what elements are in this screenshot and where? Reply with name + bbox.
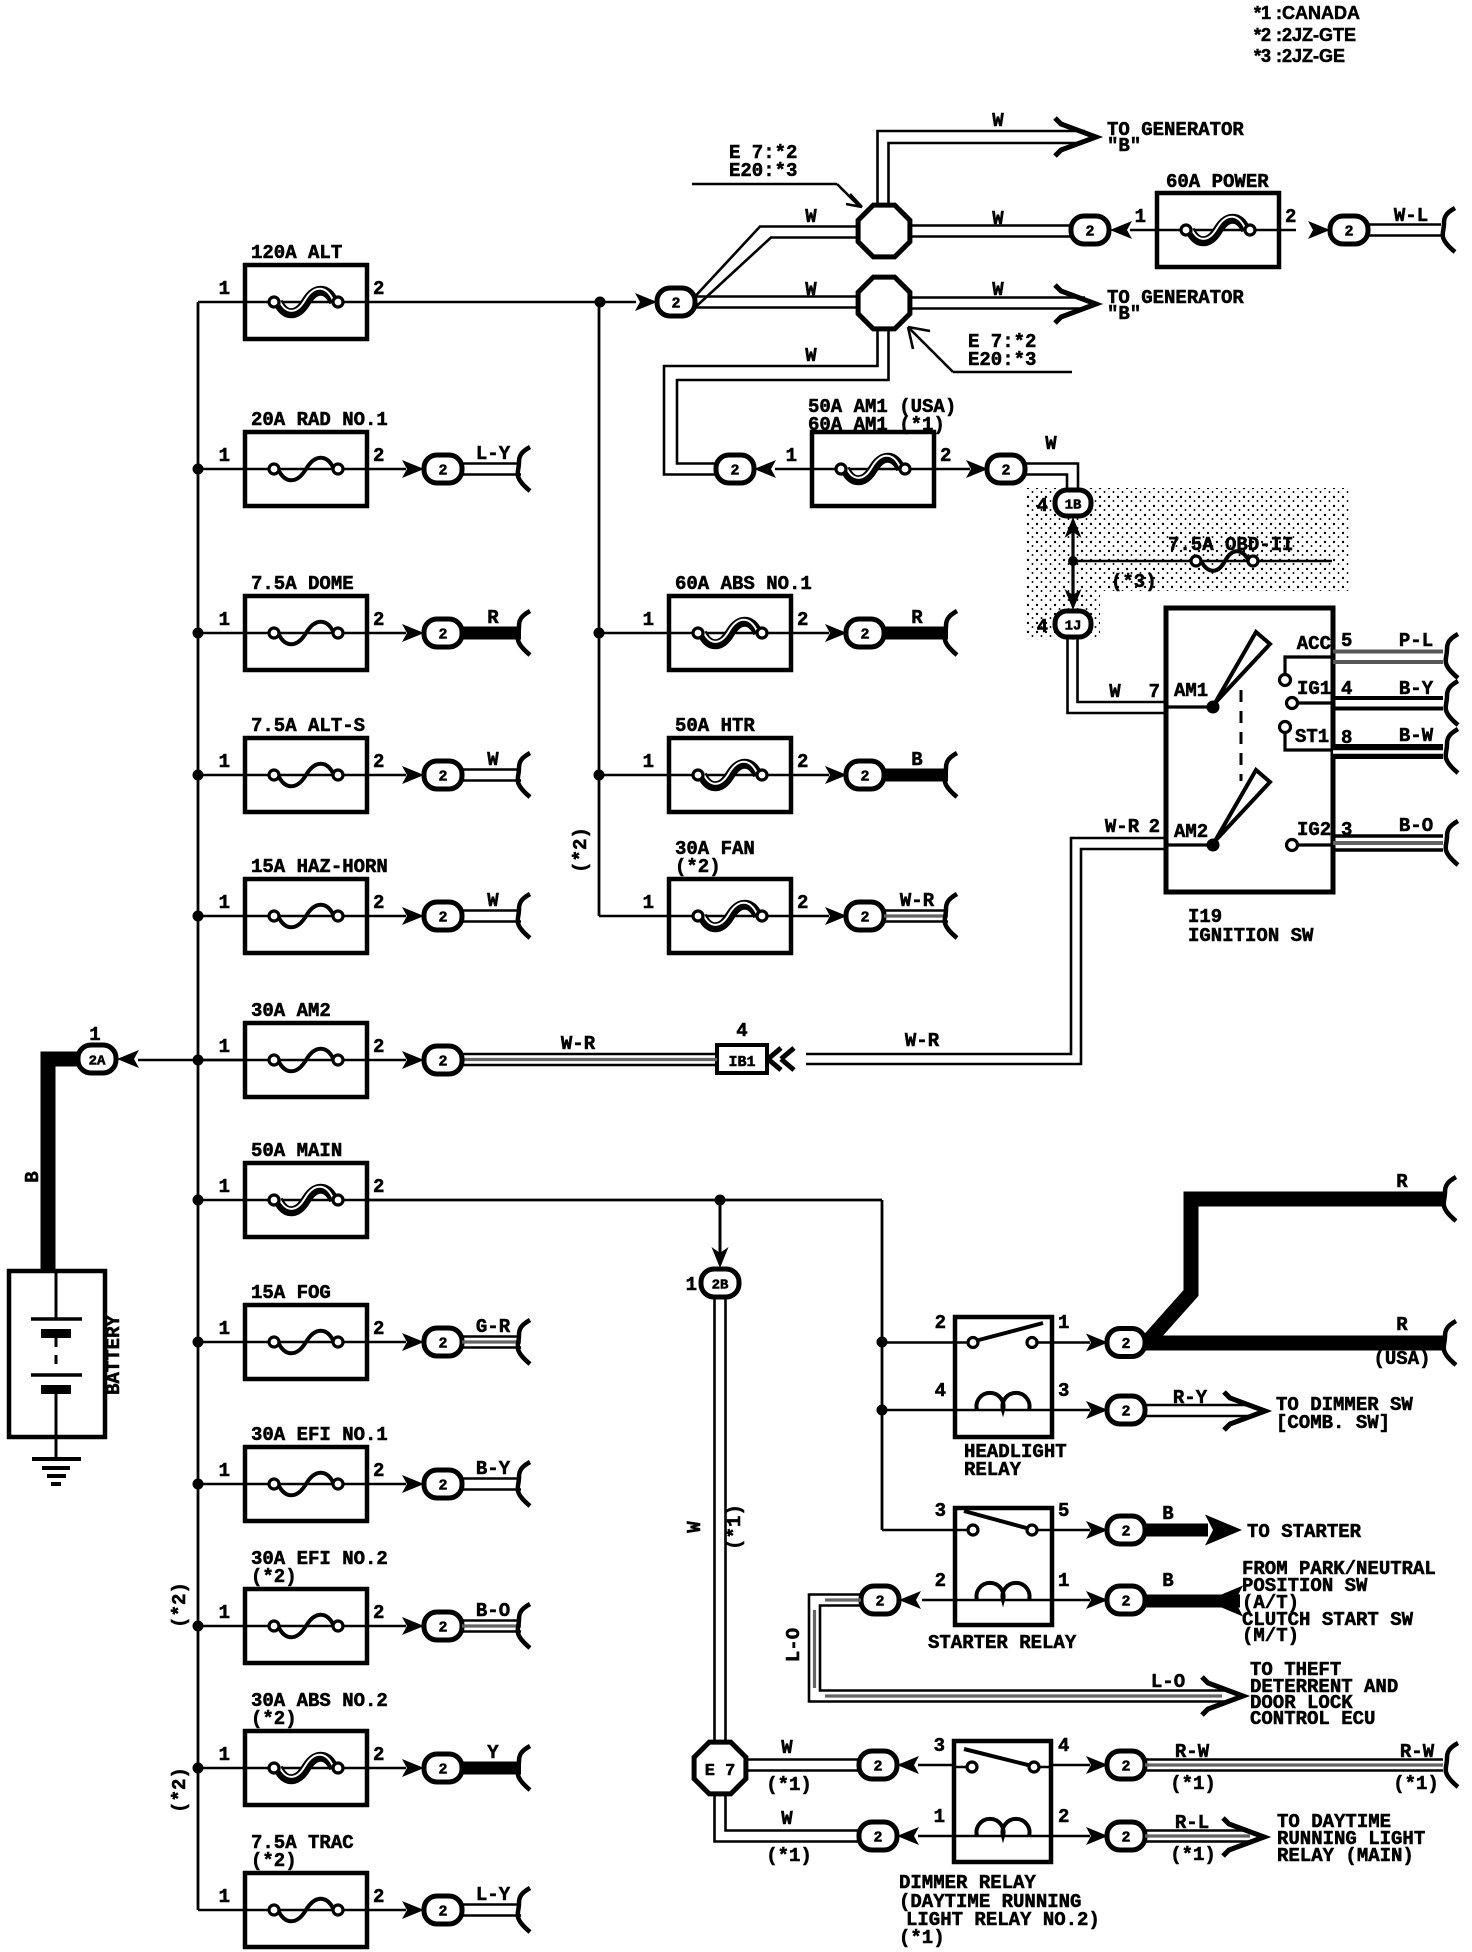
svg-text:R-W: R-W [1400, 1741, 1435, 1763]
svg-text:(*2): (*2) [675, 856, 721, 878]
connector 2 (30A EFI NO.1 output) [402, 1470, 462, 1498]
svg-text:(*1): (*1) [724, 1504, 746, 1550]
wire R-L (*1) to daytime running light relay [1145, 1812, 1264, 1866]
wire 7.5A DOME pin 2 to connector [367, 632, 406, 635]
connector 2 (15A HAZ-HORN output) [402, 902, 462, 930]
svg-text:BATTERY: BATTERY [103, 1315, 125, 1395]
svg-text:W: W [487, 749, 499, 771]
connector 2B [686, 1269, 739, 1297]
svg-text:1J: 1J [1065, 619, 1082, 635]
wire dimmer relay pin 3 [918, 1764, 954, 1767]
connector 2 (7.5A TRAC output) [402, 1896, 462, 1924]
connector 2 (15A FOG output) [402, 1328, 462, 1356]
svg-text:1: 1 [219, 751, 230, 773]
connector 1B [1037, 490, 1091, 517]
svg-text:(*1): (*1) [1170, 1773, 1216, 1795]
connector 2 (headlight relay pin 1) [1086, 1329, 1145, 1357]
wire 50A AM1 pin 2 [934, 468, 970, 471]
svg-text:1: 1 [1058, 1570, 1069, 1592]
wire W (15A HAZ-HORN output) [462, 890, 530, 938]
svg-text:120A ALT: 120A ALT [251, 242, 342, 264]
wire 7.5A TRAC pin 2 to connector [367, 1909, 406, 1912]
svg-text:W-R: W-R [561, 1033, 596, 1055]
svg-text:R-L: R-L [1175, 1812, 1209, 1834]
wire bus to 50A MAIN pin 1 [198, 1199, 245, 1202]
contact AM1 [1166, 632, 1270, 714]
wire starter coil pin 2 out [922, 1599, 955, 1602]
wire dimmer relay pin 2 out [1051, 1835, 1090, 1838]
arrow to generator B (upper) [1055, 118, 1096, 156]
svg-text:1: 1 [219, 1176, 230, 1198]
svg-text:7: 7 [1149, 681, 1160, 703]
svg-text:2: 2 [1149, 816, 1160, 838]
svg-text:B: B [1162, 1570, 1173, 1592]
wire upper octagon to 60A POWER connector (W pair) [910, 224, 1071, 227]
svg-text:2: 2 [438, 1478, 447, 1495]
svg-text:R: R [1396, 1314, 1408, 1336]
wire 60A POWER pin 1 [1130, 229, 1157, 232]
connector 2 (30A ABS NO.2 output) [402, 1754, 462, 1782]
wire L-Y (7.5A TRAC output) [462, 1884, 530, 1932]
svg-text:(*1): (*1) [899, 1927, 945, 1949]
wire W-L output [1368, 205, 1455, 252]
svg-text:IGNITION SW: IGNITION SW [1188, 925, 1314, 947]
svg-text:2: 2 [373, 1602, 384, 1624]
svg-text:2: 2 [1121, 1336, 1130, 1353]
wire 30A EFI NO.2 pin 2 to connector [367, 1625, 406, 1628]
svg-text:2: 2 [373, 892, 384, 914]
contact ST1 [1280, 722, 1334, 751]
wire B from park/neutral switch [1145, 1570, 1243, 1617]
connector 2 (60A POWER pin 1) [1071, 216, 1132, 244]
svg-text:W: W [805, 279, 817, 301]
wire battery cable B (thick) [48, 1059, 80, 1271]
svg-text:(*2): (*2) [570, 827, 592, 873]
wire R thick (upper branch) [1145, 1199, 1443, 1343]
svg-text:3: 3 [934, 1735, 945, 1757]
svg-text:W-R: W-R [905, 1030, 940, 1052]
svg-text:2: 2 [935, 1312, 946, 1334]
svg-text:(*2): (*2) [169, 1767, 191, 1813]
svg-text:1: 1 [219, 1036, 230, 1058]
svg-text:1: 1 [219, 1744, 230, 1766]
svg-text:*2 :2JZ-GTE: *2 :2JZ-GTE [1254, 25, 1356, 45]
relay coil (dimmer) [954, 1835, 1051, 1838]
svg-text:2: 2 [940, 445, 951, 467]
wire bus to 30A ABS NO.2 pin 1 [198, 1767, 245, 1770]
svg-text:2: 2 [797, 892, 808, 914]
connector 2 (50A AM1 pin 2) [966, 455, 1025, 483]
svg-text:B: B [1162, 1503, 1173, 1525]
svg-text:1: 1 [643, 892, 654, 914]
svg-text:IB1: IB1 [728, 1054, 755, 1071]
connector 2 (dimmer relay pin 1) [859, 1822, 919, 1850]
connector 2 (dimmer relay pin 4) [1086, 1751, 1145, 1779]
svg-text:1: 1 [643, 751, 654, 773]
fuse 120A ALT [219, 242, 385, 339]
svg-text:W: W [1109, 681, 1121, 703]
double chevron into IB1 [768, 1048, 781, 1070]
battery [9, 1271, 105, 1437]
svg-text:1: 1 [643, 609, 654, 631]
svg-text:2: 2 [797, 609, 808, 631]
svg-text:W-R: W-R [900, 890, 935, 912]
label TO THEFT DETERRENT [1250, 1659, 1398, 1730]
wire upper octagon to generator (top W pair) [878, 131, 1086, 205]
connector 2 (headlight relay pin 3) [1086, 1396, 1145, 1424]
wire dimmer relay pin 4 out [1051, 1764, 1090, 1767]
wire 15A FOG pin 2 to connector [367, 1341, 406, 1344]
svg-text:60A ABS NO.1: 60A ABS NO.1 [675, 573, 812, 595]
svg-text:2: 2 [373, 1886, 384, 1908]
wire 30A AM2 pin 1 to 2A [138, 1059, 245, 1062]
relay switch (dimmer) [954, 1766, 972, 1769]
arrow to theft deterrent [1202, 1677, 1243, 1715]
svg-text:IG2: IG2 [1297, 819, 1331, 841]
fuse 30A FAN [643, 838, 809, 953]
connector 2 (50A HTR output) [825, 761, 884, 789]
svg-text:2: 2 [373, 1744, 384, 1766]
svg-text:B-O: B-O [1399, 815, 1433, 837]
fuse 7.5A TRAC [219, 1832, 385, 1947]
wire R-W (*1) [1145, 1741, 1458, 1795]
wire W to 1B connector [1025, 464, 1078, 493]
svg-text:B-Y: B-Y [476, 1458, 511, 1480]
svg-text:2: 2 [797, 751, 808, 773]
wire B-Y (30A EFI NO.1 output) [462, 1458, 530, 1506]
svg-text:E 7: E 7 [705, 1762, 736, 1781]
svg-text:2: 2 [860, 769, 869, 786]
wire headlight relay pin 3 out [1052, 1409, 1090, 1412]
svg-text:2: 2 [1121, 1830, 1130, 1847]
svg-text:STARTER RELAY: STARTER RELAY [928, 1632, 1077, 1654]
label I19 IGNITION SW [1188, 906, 1314, 947]
wire 50A MAIN pin 2 feed [367, 1195, 888, 1531]
label R (USA) [1373, 1314, 1430, 1370]
fuse 30A EFI NO.1 [219, 1424, 388, 1521]
wire 30A FAN pin 2 to connector [791, 915, 829, 918]
svg-text:2: 2 [438, 1904, 447, 1921]
svg-text:2: 2 [730, 463, 739, 480]
svg-text:1: 1 [219, 1602, 230, 1624]
svg-text:(*2): (*2) [169, 1582, 191, 1628]
label TO GENERATOR B (lower) [1107, 287, 1244, 325]
wire connector to upper octagon (diagonal W pair) [695, 227, 858, 308]
svg-text:2: 2 [1121, 1759, 1130, 1776]
connector 2 (60A POWER pin 2) [1308, 216, 1368, 244]
svg-text:TO STARTER: TO STARTER [1247, 1521, 1362, 1543]
hook (R USA) [1444, 1321, 1456, 1365]
starter relay box [955, 1508, 1052, 1625]
svg-text:2: 2 [860, 910, 869, 927]
svg-text:2: 2 [875, 1594, 884, 1611]
svg-text:"B": "B" [1107, 303, 1141, 325]
wire starter relay pin 1 out [1052, 1599, 1090, 1602]
svg-text:2: 2 [438, 769, 447, 786]
headlight relay box [955, 1317, 1052, 1437]
wire bus to 15A HAZ-HORN pin 1 [198, 915, 245, 918]
svg-text:2: 2 [438, 1620, 447, 1637]
svg-text:7.5A ALT-S: 7.5A ALT-S [251, 715, 365, 737]
fuse 20A RAD NO.1 [219, 409, 388, 506]
wire bus to 30A EFI NO.2 pin 1 [198, 1625, 245, 1628]
svg-text:3: 3 [935, 1500, 946, 1522]
svg-text:W: W [684, 1521, 706, 1533]
svg-text:7.5A OBD-II: 7.5A OBD-II [1168, 534, 1293, 556]
svg-text:B-Y: B-Y [1399, 678, 1434, 700]
svg-text:1: 1 [219, 445, 230, 467]
wire B-Y (IG1 output) [1333, 678, 1458, 725]
connector 2 (7.5A ALT-S output) [402, 761, 462, 789]
wire bus to 7.5A TRAC pin 1 [198, 1909, 245, 1912]
svg-text:2: 2 [1121, 1404, 1130, 1421]
svg-text:B-O: B-O [476, 1600, 510, 1622]
svg-text:(*2): (*2) [251, 1708, 297, 1730]
wire Y (30A ABS NO.2 output) [460, 1742, 530, 1790]
wire 30A AM2 pin 2 to connector [367, 1059, 406, 1062]
relay switch (starter) [955, 1529, 973, 1532]
connector 2A (battery positive) [78, 1024, 139, 1073]
wire bus to 60A ABS NO.1 pin 1 [599, 632, 669, 635]
svg-text:2: 2 [373, 278, 384, 300]
connector 2 (starter relay pin 1) [1086, 1586, 1145, 1614]
wire bus to 50A HTR pin 1 [599, 774, 669, 777]
svg-text:2: 2 [373, 1318, 384, 1340]
wire dimmer relay pin 1 [918, 1835, 954, 1838]
svg-text:IG1: IG1 [1297, 678, 1331, 700]
svg-text:W: W [992, 110, 1004, 132]
svg-text:2: 2 [1058, 1806, 1069, 1828]
svg-text:W: W [1045, 433, 1057, 455]
svg-text:AM2: AM2 [1174, 821, 1208, 843]
svg-text:2: 2 [438, 910, 447, 927]
wire L-Y (20A RAD NO.1 output) [462, 443, 530, 491]
wire B-W (ST1 output) [1333, 725, 1458, 773]
wire W-R 30A AM2 to IB1 [462, 1053, 717, 1056]
svg-text:30A EFI NO.1: 30A EFI NO.1 [251, 1424, 388, 1446]
ignition switch I19 box [1166, 608, 1333, 892]
wire W (*1) 2B to E7 octagon [713, 1297, 716, 1744]
svg-text:R: R [487, 607, 499, 629]
wire feed to headlight relay pin 2 [882, 1341, 955, 1344]
svg-text:R: R [911, 607, 923, 629]
svg-text:W: W [805, 206, 817, 228]
fuse 60A ABS NO.1 [643, 573, 812, 670]
svg-text:L-Y: L-Y [476, 1884, 511, 1906]
contact ACC [1280, 633, 1334, 686]
svg-text:W: W [992, 208, 1004, 230]
svg-text:W: W [781, 1808, 793, 1830]
fuse 7.5A OBD-II [1073, 534, 1332, 571]
svg-text:15A HAZ-HORN: 15A HAZ-HORN [251, 856, 388, 878]
svg-text:W: W [781, 1737, 793, 1759]
label TO DIMMER SW [1276, 1394, 1413, 1434]
svg-text:"B": "B" [1107, 135, 1141, 157]
svg-text:20A RAD NO.1: 20A RAD NO.1 [251, 409, 388, 431]
svg-text:2: 2 [373, 445, 384, 467]
fuse 15A FOG [219, 1282, 385, 1379]
wire 50A HTR pin 2 to connector [791, 774, 829, 777]
svg-text:CONTROL ECU: CONTROL ECU [1250, 1708, 1375, 1730]
junction dots on battery bus [193, 464, 204, 1774]
svg-text:R-Y: R-Y [1173, 1387, 1208, 1409]
svg-text:R: R [1396, 1171, 1408, 1193]
fuse 30A ABS NO.2 [219, 1690, 388, 1805]
wire 50A AM1 pin 1 [775, 468, 812, 471]
svg-text:1: 1 [934, 1806, 945, 1828]
wire drop to 2B connector [712, 1200, 729, 1268]
svg-text:P-L: P-L [1399, 630, 1433, 652]
svg-text:[COMB. SW]: [COMB. SW] [1276, 1412, 1390, 1434]
svg-text:2: 2 [373, 1176, 384, 1198]
connector 2 (alternator feed) [635, 288, 695, 316]
svg-text:(*3): (*3) [1111, 571, 1157, 593]
svg-text:4: 4 [935, 1380, 946, 1402]
ground (battery) [32, 1437, 81, 1484]
svg-text:1B: 1B [1065, 498, 1082, 514]
svg-text:1: 1 [219, 1886, 230, 1908]
svg-text:B: B [22, 1171, 44, 1182]
svg-text:2: 2 [373, 609, 384, 631]
wire feed to starter relay pin 3 [882, 1529, 955, 1532]
wire B (50A HTR output) [882, 749, 957, 797]
junction octagon E 7 [694, 1742, 746, 1794]
svg-text:2: 2 [873, 1759, 882, 1776]
wire 15A HAZ-HORN pin 2 to connector [367, 915, 406, 918]
shaded area (OBD-II option) [1026, 488, 1351, 640]
fuse 50A HTR [643, 715, 809, 812]
svg-text:3: 3 [1058, 1380, 1069, 1402]
wire bus to 7.5A DOME pin 1 [198, 632, 245, 635]
svg-text:5: 5 [1058, 1500, 1069, 1522]
svg-text:W: W [992, 279, 1004, 301]
contact AM2 [1166, 770, 1270, 852]
label DIMMER RELAY [899, 1872, 1100, 1949]
relay switch (headlight) [955, 1341, 973, 1344]
svg-text:2: 2 [438, 463, 447, 480]
svg-text:4: 4 [1037, 495, 1048, 517]
wire 20A RAD NO.1 pin 2 to connector [367, 468, 406, 471]
svg-text:(USA): (USA) [1373, 1348, 1430, 1370]
dimmer relay box [954, 1741, 1051, 1862]
connector 2 (starter relay pin 5) [1086, 1516, 1145, 1544]
svg-text:4: 4 [1058, 1735, 1069, 1757]
svg-text:2: 2 [373, 751, 384, 773]
label TO DAYTIME RUNNING LIGHT RELAY [1277, 1811, 1425, 1867]
wire 30A EFI NO.1 pin 2 to connector [367, 1483, 406, 1486]
svg-text:2: 2 [873, 1830, 882, 1847]
svg-text:1: 1 [686, 1274, 697, 1296]
svg-text:2: 2 [438, 1336, 447, 1353]
connector 2 (30A EFI NO.2 output) [402, 1612, 462, 1640]
label HEADLIGHT RELAY [964, 1441, 1067, 1481]
svg-text:(*2): (*2) [251, 1566, 297, 1588]
svg-text:L-O: L-O [783, 1628, 805, 1662]
wire W-R (30A FAN output) [884, 890, 957, 938]
relay coil (headlight) [955, 1409, 1052, 1412]
svg-text:ST1: ST1 [1295, 726, 1329, 748]
fuse 7.5A ALT-S [219, 715, 385, 812]
svg-text:5: 5 [1341, 630, 1352, 652]
wire feed to headlight relay pin 4 [882, 1409, 955, 1412]
svg-text:2: 2 [1285, 206, 1296, 228]
wire bus to 30A EFI NO.1 pin 1 [198, 1483, 245, 1486]
hook (R upper) [1444, 1177, 1456, 1221]
wire bus to 7.5A ALT-S pin 1 [198, 774, 245, 777]
svg-text:1: 1 [219, 609, 230, 631]
fuse 30A AM2 [219, 1000, 385, 1097]
junction octagon E7/E20 upper [858, 205, 910, 257]
svg-text:W: W [805, 345, 817, 367]
arrow to generator B (lower) [1055, 285, 1096, 323]
svg-text:2B: 2B [712, 1278, 729, 1294]
connector 2 (starter relay pin 2) [861, 1586, 921, 1614]
connector 2 (50A AM1 pin 1) [716, 455, 776, 483]
wire lower octagon to 50A AM1 connector (W pair) [664, 329, 889, 475]
wire W (7.5A ALT-S output) [462, 749, 530, 797]
svg-text:RELAY: RELAY [964, 1459, 1022, 1481]
svg-text:*1 :CANADA: *1 :CANADA [1254, 3, 1360, 23]
wire W-R ignition AM2 to IB1 [806, 838, 1166, 1064]
connector 1J [1037, 611, 1091, 638]
connector 2 (dimmer relay pin 3) [859, 1751, 919, 1779]
fuse 15A HAZ-HORN [219, 856, 388, 953]
wire 60A POWER pin 2 [1279, 229, 1296, 232]
svg-text:Y: Y [487, 1742, 499, 1764]
svg-text:2: 2 [1121, 1524, 1130, 1541]
wire L-O loop [809, 1595, 1226, 1702]
svg-text:4: 4 [736, 1020, 747, 1042]
svg-text:E20:*3: E20:*3 [729, 160, 797, 182]
svg-text:2: 2 [438, 1054, 447, 1071]
svg-text:50A HTR: 50A HTR [675, 715, 755, 737]
svg-text:1: 1 [1135, 206, 1146, 228]
svg-text:2A: 2A [89, 1054, 106, 1070]
connector 2 (20A RAD NO.1 output) [402, 455, 462, 483]
svg-text:2: 2 [438, 1762, 447, 1779]
svg-text:2: 2 [860, 627, 869, 644]
svg-text:1: 1 [1058, 1312, 1069, 1334]
svg-text:W-L: W-L [1394, 205, 1428, 227]
junction octagon E7/E20 lower [858, 277, 910, 329]
wire bus to 15A FOG pin 1 [198, 1341, 245, 1344]
svg-text:R-W: R-W [1175, 1741, 1210, 1763]
wire starter relay pin 5 out [1052, 1529, 1090, 1532]
svg-text:50A MAIN: 50A MAIN [251, 1140, 342, 1162]
svg-text:E20:*3: E20:*3 [968, 349, 1036, 371]
wire headlight relay pin 1 out [1052, 1341, 1090, 1344]
wire R (7.5A DOME output) [460, 607, 530, 655]
fuse 50A AM1 [786, 396, 957, 506]
svg-text:L-O: L-O [1151, 1671, 1185, 1693]
relay coil (starter) [955, 1599, 1052, 1602]
svg-text:2: 2 [1121, 1594, 1130, 1611]
wire 60A ABS NO.1 pin 2 to connector [791, 632, 829, 635]
svg-text:(*1): (*1) [766, 1774, 812, 1796]
svg-text:*3 :2JZ-GE: *3 :2JZ-GE [1254, 46, 1345, 66]
svg-text:7.5A DOME: 7.5A DOME [251, 573, 354, 595]
wire bus to 30A AM2 pin 1 [198, 1059, 245, 1062]
connector 2 (60A ABS NO.1 output) [825, 619, 884, 647]
fuse 30A EFI NO.2 [219, 1548, 388, 1663]
label TO GENERATOR B (upper) [1107, 119, 1244, 157]
svg-text:1: 1 [219, 1318, 230, 1340]
wire B-O (IG2 output) [1333, 815, 1458, 865]
svg-text:1: 1 [219, 892, 230, 914]
svg-text:(*1): (*1) [1170, 1844, 1216, 1866]
svg-text:2: 2 [1001, 463, 1010, 480]
wire 7.5A ALT-S pin 2 to connector [367, 774, 406, 777]
